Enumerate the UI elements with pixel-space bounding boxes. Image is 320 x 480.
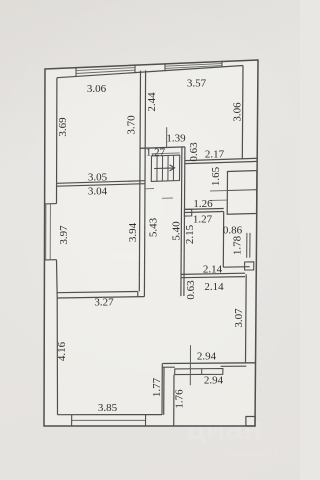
svg-text:0.63: 0.63 [185, 280, 197, 300]
wall: roomC/roomD divider [163, 362, 256, 365]
pillar notch [246, 417, 255, 427]
wall: corridor right line B [184, 147, 185, 296]
svg-text:0.86: 0.86 [223, 225, 243, 237]
wall: WC left [222, 212, 224, 268]
door jamb mark b [249, 233, 251, 258]
svg-text:3.07: 3.07 [233, 308, 245, 328]
svg-text:1.27: 1.27 [146, 147, 166, 159]
window W4 glazing [72, 419, 146, 421]
svg-text:1.78: 1.78 [232, 235, 244, 255]
window W1 glazing line 2 [76, 70, 135, 73]
staircase step 3 [167, 156, 169, 181]
svg-text:3.97: 3.97 [58, 225, 70, 245]
svg-text:2.44: 2.44 [146, 92, 158, 112]
wall: left exterior inner face lower [57, 260, 58, 415]
svg-text:2.17: 2.17 [205, 149, 225, 161]
wall: room1/room2 divider lower [57, 184, 145, 187]
wall: corridor left line B [144, 70, 145, 296]
svg-text:3.94: 3.94 [127, 222, 139, 242]
wall: room2/bigroom step [137, 292, 139, 297]
svg-text:2.14: 2.14 [203, 264, 223, 276]
duct box [245, 262, 254, 270]
wall: corridor-bigroom divider b [163, 367, 165, 415]
window W1 tick left [75, 68, 77, 77]
shaft box midline [227, 189, 256, 192]
staircase landing edge [152, 152, 180, 155]
watermark small (middle) [100, 246, 141, 266]
dimension extension 1.39 [166, 127, 168, 147]
window W3 glazing line 2 [49, 204, 51, 260]
wall: WC bottom [223, 266, 249, 269]
staircase step 4 [172, 155, 174, 180]
svg-text:3.05: 3.05 [88, 172, 108, 184]
dim tick 5.43 top [144, 188, 154, 190]
svg-text:3.85: 3.85 [98, 402, 118, 414]
wall: room1/room2 divider upper [57, 181, 146, 184]
svg-text:3.04: 3.04 [88, 186, 108, 198]
window W2 glazing line 1 [165, 64, 222, 67]
wall: corridor right line A [181, 147, 182, 296]
wall: corridor-bigroom divider a [161, 364, 163, 415]
svg-text:3.70: 3.70 [126, 115, 138, 135]
wall: roomC right [245, 274, 248, 363]
svg-text:4.16: 4.16 [56, 341, 68, 361]
svg-text:0.63: 0.63 [188, 142, 200, 162]
wall: roomA top lower [185, 161, 257, 163]
svg-text:3.69: 3.69 [57, 117, 69, 137]
wall: roomB/roomC divider lower [181, 277, 245, 278]
wall: left exterior inner face upper [56, 78, 58, 204]
wall: roomA top upper [185, 158, 257, 160]
svg-text:1.76: 1.76 [174, 389, 186, 409]
wall: roomC/roomD divider lower left [162, 366, 174, 368]
wall: corridor left line A [139, 71, 140, 292]
staircase outline [151, 155, 179, 181]
dim tick 5.40 top [162, 197, 173, 199]
window W3 glazing line 1 [45, 204, 47, 260]
wall: exterior outline [44, 60, 258, 426]
svg-text:3.06: 3.06 [232, 102, 244, 122]
door jamb mark a [246, 233, 248, 258]
svg-text:2.15: 2.15 [184, 224, 196, 244]
wall: room2/bigroom divider upper [57, 292, 138, 293]
junction box [184, 209, 191, 216]
svg-text:1.39: 1.39 [166, 133, 186, 145]
roomD door band [175, 369, 223, 375]
wall: right exterior inner face [241, 66, 244, 159]
dim tick 1.65 a [210, 190, 227, 193]
svg-text:2.94: 2.94 [197, 351, 217, 363]
staircase step 2 [161, 156, 163, 181]
svg-text:1.26: 1.26 [193, 198, 213, 210]
svg-text:3.27: 3.27 [94, 297, 114, 309]
wall: room2/bigroom divider lower [57, 297, 144, 298]
wall: stair hall top [140, 147, 185, 148]
window W1 glazing line 1 [76, 68, 135, 71]
svg-text:3.06: 3.06 [87, 83, 107, 95]
svg-text:1.77: 1.77 [151, 377, 163, 397]
svg-text:5.40: 5.40 [171, 221, 183, 241]
svg-text:2.94: 2.94 [204, 375, 224, 387]
wall: roomD left [173, 375, 175, 426]
window W4 tick right [145, 415, 147, 426]
window W2 glazing line 2 [165, 66, 222, 69]
dim tick 1.65 b [210, 199, 227, 201]
window W3 bottom cap [45, 259, 57, 261]
watermark large (bottom right) [186, 410, 262, 447]
svg-text:2.14: 2.14 [204, 281, 224, 293]
window W2 tick left [164, 64, 166, 71]
wall: roomA/roomB divider upper [185, 208, 224, 211]
watermark caption [228, 449, 278, 458]
svg-text:1.65: 1.65 [210, 166, 222, 186]
svg-text:3.57: 3.57 [187, 78, 207, 90]
shaft box [227, 171, 257, 215]
svg-text:1.27: 1.27 [193, 214, 213, 226]
svg-text:5.43: 5.43 [148, 217, 160, 237]
dimension extension 2.94 [189, 345, 191, 385]
window W3 top cap [45, 203, 57, 205]
staircase step 1 [156, 156, 158, 181]
roomD door band divider [201, 369, 203, 375]
wall: roomB/roomC divider upper [181, 273, 245, 274]
staircase direction arrow [154, 165, 175, 171]
window W2 tick right [221, 62, 223, 68]
wall: bottom exterior inner face [58, 414, 163, 416]
wall: roomC/roomD divider lower right [221, 365, 247, 367]
wall: top exterior inner face [57, 66, 243, 78]
window W4 tick left [71, 415, 73, 426]
wall: roomA/roomB divider lower [185, 212, 224, 213]
window W1 tick right [134, 65, 136, 72]
